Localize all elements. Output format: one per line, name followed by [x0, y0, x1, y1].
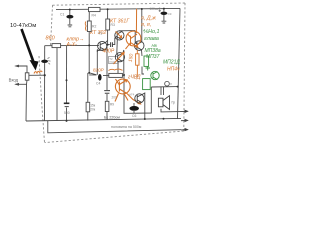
junction node C3	[107, 44, 109, 46]
orange mark beside R2	[85, 22, 86, 31]
svg-text:Т1: Т1	[98, 32, 102, 36]
input terminal arrow top	[14, 65, 19, 68]
svg-text:⅍Но,1: ⅍Но,1	[143, 29, 159, 35]
svg-text:Гр: Гр	[172, 101, 176, 105]
junction node emitter bus	[88, 72, 90, 74]
svg-text:R4: R4	[92, 14, 96, 18]
svg-text:МП37: МП37	[146, 54, 160, 60]
orange redraw transistor A	[126, 9, 141, 49]
capacitor C1 (supply filter)	[60, 13, 73, 27]
wire input lower terminal	[16, 83, 28, 85]
input terminal arrow bottom	[14, 83, 19, 86]
transistor T4 (driver)	[134, 31, 144, 51]
capacitor C5 plates	[104, 91, 110, 94]
svg-text:R9: R9	[110, 103, 114, 107]
capacitor C500 (emitter ladder)	[64, 103, 70, 115]
wire T2 collector to load	[120, 30, 136, 33]
capacitor C2 (input, electrolytic)	[41, 58, 50, 65]
wire T3 collector vertical	[123, 50, 124, 74]
junction node ladder	[66, 79, 68, 81]
svg-text:Б1 220ом: Б1 220ом	[104, 115, 120, 119]
svg-text:я, Д,ж: я, Д,ж	[140, 16, 156, 22]
junction node C7	[163, 8, 165, 10]
output terminal arrow 3	[181, 128, 189, 131]
wire lower return line	[48, 121, 181, 133]
orange scratch over R7	[109, 69, 123, 70]
svg-text:С6: С6	[132, 114, 136, 118]
orange arrow in T2	[116, 32, 122, 38]
svg-text:С9: С9	[168, 12, 172, 16]
transistor T1	[97, 41, 106, 52]
potentiometer R volume	[25, 73, 29, 80]
wire T3 emitter	[117, 61, 119, 74]
wire input coupling vertical	[44, 46, 46, 121]
wire speaker bottom	[161, 109, 181, 112]
wire T4 emitter down	[141, 50, 144, 56]
annotation arrow (big black)	[22, 29, 39, 71]
dashed enclosure border	[39, 3, 185, 143]
orange redraw transistor B (output)	[115, 79, 141, 104]
junction node base	[88, 44, 90, 46]
wire divider vertical	[56, 46, 58, 121]
transistor T2	[115, 31, 124, 40]
svg-text:20к: 20к	[90, 108, 96, 112]
svg-text:100мкФ→: 100мкФ→	[150, 7, 165, 11]
wire T1 emitter	[96, 50, 98, 75]
svg-text:400Р: 400Р	[103, 49, 115, 55]
svg-text:500: 500	[64, 111, 70, 115]
green resistor sketch 1	[144, 56, 150, 71]
wire driver node	[144, 97, 146, 119]
wire bottom ground rail	[26, 118, 181, 121]
transistor T3	[115, 53, 124, 62]
wire base feed horizontal	[45, 44, 99, 46]
capacitor C3 (interstage)	[111, 42, 113, 47]
wire top supply rail	[56, 8, 180, 9]
svg-text:820Р: 820Р	[93, 68, 105, 73]
capacitor C6 (output electrolytic)	[129, 106, 139, 118]
svg-text:200: 200	[112, 96, 118, 100]
svg-text:860: 860	[46, 36, 56, 42]
resistor R9 (bottom row 2)	[105, 101, 114, 111]
orange highlight on pot wiper	[34, 71, 42, 74]
output terminal arrow 2	[181, 119, 189, 122]
wire speaker top feed	[151, 86, 177, 88]
wire cap top right drop	[163, 9, 165, 12]
svg-text:10-47кОм: 10-47кОм	[10, 23, 36, 29]
wire R3 drop	[107, 9, 109, 19]
orange resistor sketch	[136, 50, 139, 77]
svg-text:С1: С1	[60, 13, 64, 17]
svg-text:НП4ч: НП4ч	[167, 67, 180, 73]
wire output loop	[124, 74, 151, 113]
resistor R8 (bottom row 1)	[86, 102, 96, 112]
wire pot to ground rail	[26, 80, 27, 121]
wire pot wiper to amp	[29, 74, 45, 76]
capacitor C4 (emitter bypass)	[96, 74, 102, 86]
wire divider mid vertical	[106, 45, 108, 90]
svg-text:АГ4: АГ4	[129, 93, 135, 97]
svg-text:R2: R2	[92, 25, 96, 29]
transistor T5 (output, black)	[135, 93, 145, 103]
wire C1 branch	[69, 10, 71, 25]
svg-text:МП21Д: МП21Д	[163, 60, 180, 66]
green transistor sketch	[151, 71, 159, 80]
svg-text:гЧВД: гЧВД	[128, 75, 141, 81]
resistor R4 (on top rail)	[89, 7, 101, 17]
junction node C1 tap	[69, 9, 71, 11]
svg-text:Вход: Вход	[9, 77, 19, 82]
resistor R1 (series base)	[52, 44, 61, 48]
junction node pot wiper	[44, 74, 46, 76]
speaker Gr1	[158, 96, 175, 110]
svg-text:половина на 500м: половина на 500м	[111, 125, 142, 129]
wire emitter node horizontal	[89, 73, 96, 75]
wire emitter ladder vertical	[66, 46, 68, 103]
resistor R7 (horizontal, feedback)	[109, 73, 123, 77]
svg-text:А-Х-: А-Х-	[66, 42, 78, 48]
wire input top terminal	[16, 66, 28, 73]
wires: main grid	[16, 8, 182, 132]
wire T5 node vertical	[163, 87, 165, 95]
output terminal arrow 1	[181, 110, 189, 113]
wire T2 emitter to T3 base	[116, 40, 119, 54]
green resistor sketch 2	[143, 79, 151, 90]
svg-text:С4: С4	[96, 82, 100, 86]
svg-text:Л: Л	[170, 82, 172, 86]
wire C3 node	[108, 38, 115, 45]
wire speaker top	[160, 87, 162, 95]
type label box (grey)	[109, 57, 118, 64]
lamp L1	[165, 81, 170, 86]
svg-text:глава: глава	[144, 36, 159, 42]
wire T1 collector	[105, 41, 107, 43]
svg-text:150: 150	[128, 53, 135, 62]
wire right rail	[178, 8, 181, 119]
junction node rail taps	[141, 8, 143, 10]
svg-text:R3: R3	[111, 23, 115, 27]
resistor R2 (upper divider)	[87, 21, 96, 32]
orange emphasis through T3	[114, 52, 125, 64]
svg-text:я, я,: я, я,	[140, 22, 151, 28]
wire T4 collector to rail	[141, 9, 143, 41]
wire R8 drop	[87, 73, 89, 102]
wire R2 drop	[88, 9, 90, 21]
wire output transistor to C6	[133, 103, 135, 106]
resistor R3 (T1 load)	[106, 19, 115, 30]
capacitor C7 (top right filter)	[150, 7, 172, 23]
wire mid bus horizontal	[89, 74, 124, 77]
